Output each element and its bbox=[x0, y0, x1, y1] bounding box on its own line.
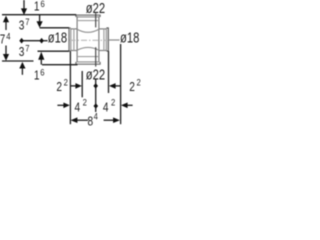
svg-text:1: 1 bbox=[34, 69, 40, 83]
svg-text:ø22: ø22 bbox=[86, 66, 105, 83]
svg-text:4: 4 bbox=[94, 111, 98, 122]
svg-text:ø18: ø18 bbox=[48, 29, 67, 46]
svg-text:7: 7 bbox=[0, 32, 5, 46]
svg-text:6: 6 bbox=[40, 67, 44, 78]
svg-text:ø22: ø22 bbox=[86, 0, 105, 16]
svg-text:1: 1 bbox=[34, 0, 40, 14]
svg-text:2: 2 bbox=[111, 97, 115, 108]
svg-text:ø18: ø18 bbox=[120, 29, 139, 46]
svg-text:8: 8 bbox=[88, 114, 94, 128]
svg-text:6: 6 bbox=[41, 0, 45, 9]
svg-text:2: 2 bbox=[137, 77, 141, 88]
svg-text:3: 3 bbox=[19, 18, 25, 32]
svg-text:2: 2 bbox=[83, 97, 87, 108]
svg-text:2: 2 bbox=[64, 77, 68, 88]
svg-text:2: 2 bbox=[56, 80, 62, 94]
svg-text:7: 7 bbox=[25, 43, 29, 54]
svg-text:4: 4 bbox=[103, 100, 109, 114]
svg-text:3: 3 bbox=[19, 45, 25, 59]
svg-text:7: 7 bbox=[25, 16, 29, 27]
svg-text:2: 2 bbox=[129, 80, 135, 94]
svg-text:4: 4 bbox=[6, 31, 10, 42]
svg-text:4: 4 bbox=[75, 100, 81, 114]
